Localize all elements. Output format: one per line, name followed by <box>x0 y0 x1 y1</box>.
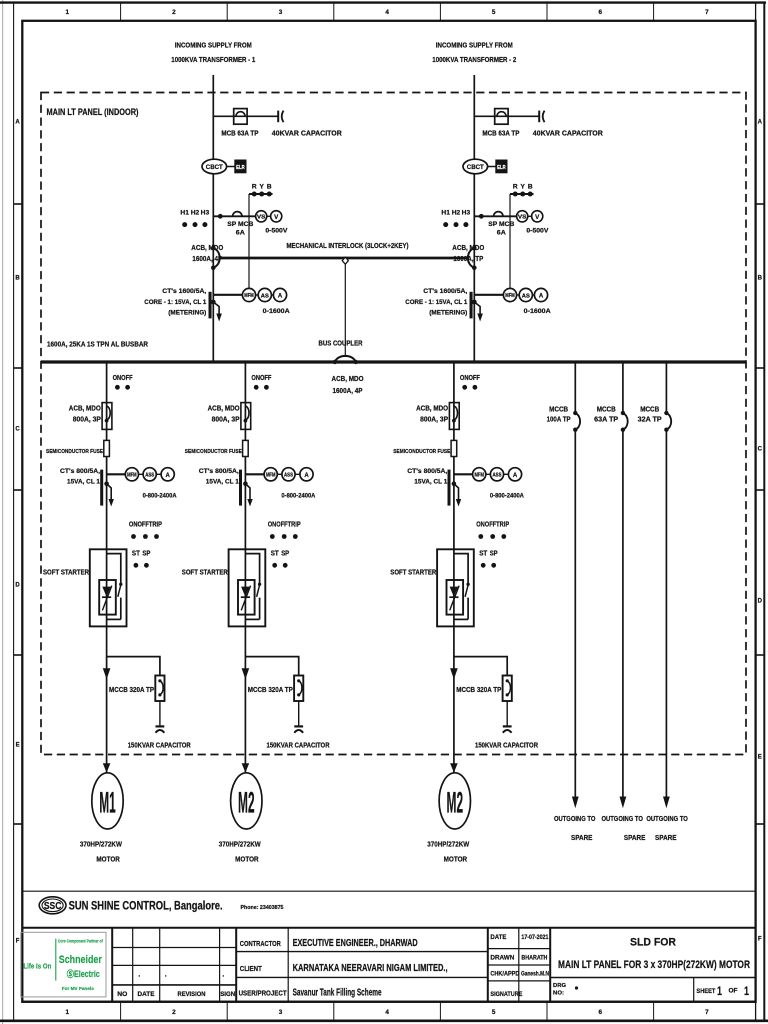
node Y dot (1) <box>259 192 264 197</box>
CT earth arrow feeder-1 <box>107 484 114 507</box>
svg-text:SEMICONDUCTOR FUSE: SEMICONDUCTOR FUSE <box>46 449 103 455</box>
svg-text:SP: SP <box>281 551 289 558</box>
motor M2 feeder-2 <box>231 773 262 829</box>
meter MFM feeder-2 <box>264 468 277 481</box>
wire MFM-AS (2) <box>517 294 520 296</box>
label ACB MDO 1600A (1) <box>191 245 223 263</box>
svg-text:KARNATAKA NEERAVARI NIGAM LIMI: KARNATAKA NEERAVARI NIGAM LIMITED., <box>293 963 448 974</box>
meter V voltmeter (1) <box>271 211 282 222</box>
lamp TRIP feeder-1 starter <box>154 534 159 539</box>
breaker ACB 800A feeder-1 (boxed) <box>102 403 112 430</box>
svg-text:M2: M2 <box>447 786 464 819</box>
svg-text:H1: H1 <box>441 209 450 216</box>
svg-text:1: 1 <box>66 9 70 16</box>
interlock key diamond <box>342 257 348 264</box>
top coordinate numbers 1-7 <box>66 9 710 16</box>
label SP MCB 6A (1) <box>227 221 253 237</box>
svg-text:MCCB 320A TP: MCCB 320A TP <box>248 687 293 694</box>
dashed enclosure MAIN LT PANEL <box>41 93 746 755</box>
svg-text:7: 7 <box>705 9 709 16</box>
wire CT secondary to MFM (1) <box>213 294 242 296</box>
svg-text:ACB, MDO: ACB, MDO <box>208 406 240 413</box>
svg-text:40KVAR CAPACITOR: 40KVAR CAPACITOR <box>533 131 603 138</box>
wire RYB tap (2) <box>510 193 534 195</box>
node CT dot (2) <box>472 300 477 305</box>
motor M1 feeder-1 <box>92 773 123 829</box>
svg-text:0-800-2400A: 0-800-2400A <box>281 493 315 500</box>
svg-text:SUN SHINE CONTROL, Bangalore.: SUN SHINE CONTROL, Bangalore. <box>69 900 223 913</box>
arrow outgoing spare-1 <box>572 797 579 809</box>
svg-text:CT's 1600/5A,: CT's 1600/5A, <box>162 288 206 295</box>
svg-text:A: A <box>539 294 544 300</box>
svg-text:OF: OF <box>729 988 738 995</box>
svg-text:C: C <box>758 446 763 452</box>
svg-text:1000KVA TRANSFORMER - 2: 1000KVA TRANSFORMER - 2 <box>432 55 516 64</box>
svg-text:R: R <box>252 184 257 191</box>
fuse semiconductor feeder-3 <box>451 440 457 456</box>
svg-text:.: . <box>222 972 224 979</box>
svg-text:ACB, MDO: ACB, MDO <box>191 245 223 252</box>
svg-text:ⓈElectric: ⓈElectric <box>67 968 100 979</box>
wire ASS-A feeder-3 <box>504 473 509 475</box>
label SHEET 1 OF 1 <box>696 986 749 998</box>
wire spare feeder-1 upper <box>574 362 576 413</box>
svg-text:INCOMING SUPPLY FROM: INCOMING SUPPLY FROM <box>175 41 252 50</box>
breaker MCCB 63A spare-2 <box>621 411 628 432</box>
svg-text:ST: ST <box>132 551 141 558</box>
arrow below branch feeder-3 <box>450 668 458 679</box>
svg-text:ST: ST <box>271 551 280 558</box>
indicator lamp H1 (1) <box>182 222 187 227</box>
svg-text:A: A <box>278 294 283 300</box>
svg-text:A: A <box>15 119 20 125</box>
wire CBCT-1 to ELR <box>227 166 235 168</box>
svg-text:MFM: MFM <box>127 473 137 479</box>
svg-text:ONOFF: ONOFF <box>113 375 134 382</box>
revision table headers NO DATE REVISION SIGN <box>117 991 235 998</box>
pushbutton SP feeder-2 <box>283 563 288 568</box>
svg-text:CT's 800/5A,: CT's 800/5A, <box>199 468 239 475</box>
motor M2 feeder-3 <box>439 773 470 829</box>
logo Schneider Electric box <box>21 932 106 997</box>
capacitor 40KVAR (2) <box>539 111 544 123</box>
svg-text:MCCB 320A TP: MCCB 320A TP <box>109 687 154 694</box>
svg-text:(METERING): (METERING) <box>429 310 467 317</box>
soft starter U2 bypass contactor <box>245 554 261 620</box>
svg-text:A: A <box>166 473 171 479</box>
svg-text:SOFT STARTER: SOFT STARTER <box>390 570 436 577</box>
wire branch to MCCB feeder-3 <box>454 657 507 676</box>
wire spare feeder-1 lower <box>574 430 576 797</box>
lamp ON feeder-3 <box>462 385 467 390</box>
svg-text:6A: 6A <box>236 230 245 237</box>
svg-text:MCCB: MCCB <box>640 407 659 414</box>
svg-text:4: 4 <box>385 9 389 16</box>
indicator lamp H3 (1) <box>202 222 207 227</box>
soft starter U3 thyristor box <box>447 580 464 615</box>
wire RYB tap (1) <box>249 193 273 195</box>
horizontal rule above SSC strip <box>22 890 755 892</box>
breaker ACB 800A feeder-3 (boxed) <box>449 403 459 430</box>
svg-text:DRAWN: DRAWN <box>490 954 514 961</box>
svg-text:M1: M1 <box>99 786 116 819</box>
bottom coordinate band ticks <box>121 1002 654 1021</box>
svg-text:B: B <box>528 184 533 191</box>
wire feeder-3 vertical main <box>453 362 455 773</box>
busbar 1600A TPN AL <box>41 360 746 363</box>
label CT's 1600/5A metering (2) <box>405 288 467 316</box>
svg-text:H2: H2 <box>452 209 461 216</box>
label MCCB 63A TP spare-2 <box>594 407 618 424</box>
wire VS to V (1) <box>267 215 271 217</box>
lamp ON feeder-2 starter <box>270 534 275 539</box>
svg-text:CBCT: CBCT <box>206 164 223 171</box>
svg-text:A: A <box>513 473 518 479</box>
svg-text:E: E <box>758 754 762 760</box>
svg-text:15VA, CL 1: 15VA, CL 1 <box>414 479 447 486</box>
wire MCCB to capacitor feeder-3 <box>506 701 508 725</box>
svg-text:D: D <box>15 582 20 588</box>
svg-text:C: C <box>15 426 20 432</box>
svg-text:H3: H3 <box>462 209 471 216</box>
svg-text:DATE: DATE <box>490 934 507 941</box>
meter MFM incoming (1) <box>242 288 255 301</box>
svg-text:A: A <box>304 473 309 479</box>
wire CBCT-2 to ELR <box>488 166 496 168</box>
pushbutton SP feeder-1 <box>144 563 149 568</box>
svg-text:Savanur Tank Filling Scheme: Savanur Tank Filling Scheme <box>293 988 382 999</box>
meter MFM feeder-1 <box>125 468 138 481</box>
svg-text:ACB, MDO: ACB, MDO <box>416 406 448 413</box>
indicator lamp H2 (2) <box>454 222 459 227</box>
svg-text:0-1600A: 0-1600A <box>263 308 290 315</box>
node Y dot (2) <box>520 192 525 197</box>
wire voltage sense drop (2) <box>509 194 511 288</box>
svg-text:SLD FOR: SLD FOR <box>630 937 676 949</box>
svg-text:100A TP: 100A TP <box>547 417 571 424</box>
arrow outgoing spare-2 <box>620 797 627 809</box>
thyristor symbol feeder-3 <box>449 586 459 611</box>
svg-text:H1: H1 <box>180 209 189 216</box>
lamp ON feeder-2 <box>254 385 259 390</box>
relay ELR-2 <box>496 160 507 173</box>
svg-text:17-07-2021: 17-07-2021 <box>521 934 548 941</box>
breaker MCCB 100A spare-1 <box>573 411 580 432</box>
pushbutton ST feeder-3 <box>481 563 486 568</box>
svg-text:CT's 800/5A,: CT's 800/5A, <box>407 468 447 475</box>
capacitor 150KVAR feeder-1 <box>156 726 165 732</box>
svg-text:CBCT: CBCT <box>467 164 484 171</box>
svg-text:OUTGOING TO: OUTGOING TO <box>601 816 643 823</box>
svg-text:ELR: ELR <box>497 165 506 171</box>
wire branch to capacitor MCB-1 <box>213 115 278 117</box>
left row letters A-F <box>15 119 20 944</box>
node B dot (1) <box>267 192 272 197</box>
svg-text:63A TP: 63A TP <box>594 417 618 424</box>
svg-text:M2: M2 <box>238 786 255 819</box>
svg-text:Life Is On: Life Is On <box>23 961 51 970</box>
CT earth arrow feeder-3 <box>454 484 461 507</box>
svg-text:ONOFFTRIP: ONOFFTRIP <box>476 522 509 529</box>
meter AS ammeter-selector (2) <box>519 288 532 301</box>
wire metering tap (2) <box>474 215 517 217</box>
breaker ACB 800A feeder-2 (boxed) <box>241 403 251 430</box>
svg-text:1: 1 <box>744 986 749 998</box>
meter A ammeter (1) <box>273 288 286 301</box>
indicator lamp H3 (2) <box>463 222 468 227</box>
svg-text:D: D <box>758 598 763 604</box>
svg-text:SSC: SSC <box>44 900 62 912</box>
svg-text:SEMICONDUCTOR FUSE: SEMICONDUCTOR FUSE <box>185 449 242 455</box>
svg-text:ASS: ASS <box>145 473 154 479</box>
meter ASS feeder-3 <box>490 468 503 481</box>
svg-text:VS: VS <box>257 215 266 221</box>
svg-text:MECHANICAL INTERLOCK (3LOCK+2K: MECHANICAL INTERLOCK (3LOCK+2KEY) <box>287 241 409 250</box>
label H1 H2 H3 (2) <box>441 209 470 216</box>
soft starter U2 thyristor box <box>238 580 255 615</box>
wire CT secondary feeder-1 <box>107 473 126 475</box>
svg-text:370HP/272KW: 370HP/272KW <box>427 840 470 849</box>
contractor client project rows <box>236 928 488 1002</box>
label ST SP feeder-1 <box>132 551 151 558</box>
label SP MCB 6A (2) <box>488 221 514 237</box>
svg-text:MFM: MFM <box>505 293 515 299</box>
thyristor symbol feeder-2 <box>241 586 251 611</box>
thyristor symbol feeder-1 <box>102 586 112 611</box>
breaker ACB-2 (arc) <box>468 246 477 270</box>
svg-text:150KVAR CAPACITOR: 150KVAR CAPACITOR <box>267 742 330 749</box>
svg-text:CORE - 1: 15VA, CL 1: CORE - 1: 15VA, CL 1 <box>405 299 467 306</box>
label DRG NO <box>553 983 566 997</box>
meter MFM incoming (2) <box>503 288 516 301</box>
label phases R Y B (2) <box>513 184 533 191</box>
svg-text:MOTOR: MOTOR <box>96 855 120 864</box>
svg-text:370HP/272KW: 370HP/272KW <box>80 840 123 849</box>
wire branch to MCCB feeder-1 <box>107 657 160 676</box>
wire ASS-A feeder-2 <box>295 473 300 475</box>
CT earth arrow (1) <box>213 302 222 322</box>
svg-text:SP MCB: SP MCB <box>488 221 514 228</box>
label CT's 800/5A feeder-1 <box>60 468 100 486</box>
node CT dot feeder-2 <box>243 481 248 486</box>
svg-text:Core Component Partner of: Core Component Partner of <box>58 939 103 944</box>
svg-text:CT's 800/5A,: CT's 800/5A, <box>60 468 100 475</box>
svg-text:1000KVA TRANSFORMER - 1: 1000KVA TRANSFORMER - 1 <box>171 55 255 64</box>
label MCCB 32A TP spare-3 <box>638 407 662 424</box>
CBCT-1 core balance CT <box>202 159 227 174</box>
svg-text:SEMICONDUCTOR FUSE: SEMICONDUCTOR FUSE <box>393 449 450 455</box>
wire ASS-A feeder-1 <box>156 473 161 475</box>
svg-text:SOFT STARTER: SOFT STARTER <box>43 570 89 577</box>
soft starter U3 bypass contactor <box>454 554 470 620</box>
meter V voltmeter (2) <box>532 211 543 222</box>
wire incoming-1 vertical main <box>212 75 214 362</box>
svg-text:0-800-2400A: 0-800-2400A <box>490 493 524 500</box>
arrow to motor feeder-3 <box>450 763 458 772</box>
svg-text:VS: VS <box>518 215 527 221</box>
lamp OFF feeder-2 starter <box>282 534 287 539</box>
svg-text:ASS: ASS <box>493 473 502 479</box>
wire VS to V (2) <box>528 215 532 217</box>
svg-text:800A, 3P: 800A, 3P <box>73 416 101 423</box>
node R dot (1) <box>252 192 257 197</box>
label ST SP feeder-2 <box>271 551 290 558</box>
svg-text:1: 1 <box>66 1009 70 1016</box>
meter ASS feeder-2 <box>282 468 295 481</box>
svg-text:Phone: 23403875: Phone: 23403875 <box>241 905 285 911</box>
wire MCCB to capacitor feeder-2 <box>298 701 300 725</box>
node CT dot feeder-3 <box>452 481 457 486</box>
lamp TRIP feeder-3 starter <box>501 534 506 539</box>
soft starter U2 outer box <box>229 549 266 626</box>
svg-text:DATE: DATE <box>138 991 156 998</box>
svg-text:2: 2 <box>172 9 176 16</box>
node CT dot feeder-1 <box>104 481 109 486</box>
svg-text:SP: SP <box>490 551 498 558</box>
svg-text:ONOFFTRIP: ONOFFTRIP <box>268 522 301 529</box>
junction dot metering tap (2) <box>479 214 484 219</box>
label CT's 1600/5A metering (1) <box>144 288 206 316</box>
revision table dots <box>138 972 224 979</box>
svg-text:6: 6 <box>599 9 603 16</box>
svg-text:.: . <box>138 972 140 979</box>
wire MFM-ASS feeder-2 <box>277 473 282 475</box>
soft starter U1 outer box <box>90 549 127 626</box>
svg-text:(METERING): (METERING) <box>168 310 206 317</box>
breaker bus coupler ACB (arc on busbar) <box>333 356 358 364</box>
meter ASS feeder-1 <box>143 468 156 481</box>
label MCCB 100A TP spare-1 <box>547 407 571 424</box>
wire AS-A (2) <box>532 294 534 296</box>
svg-text:MFM: MFM <box>474 473 484 479</box>
breaker MCCB 320A TP feeder-1 <box>155 676 164 702</box>
CT core bar feeder-1 <box>100 470 103 506</box>
svg-text:CT's 1600/5A,: CT's 1600/5A, <box>423 288 467 295</box>
svg-text:SIGN: SIGN <box>220 991 235 998</box>
bottom coordinate numbers 1-7 <box>66 1009 710 1016</box>
svg-text:3: 3 <box>279 9 283 16</box>
title block outline <box>22 928 755 1002</box>
svg-text:B: B <box>15 275 20 281</box>
meter A feeder-2 <box>300 468 313 481</box>
label CT's 800/5A feeder-3 <box>407 468 447 486</box>
svg-text:SOFT STARTER: SOFT STARTER <box>182 570 228 577</box>
breaker MCB 2 63A TP <box>495 109 508 125</box>
svg-text:MAIN LT PANEL (INDOOR): MAIN LT PANEL (INDOOR) <box>47 107 139 118</box>
lamp OFF feeder-3 starter <box>490 534 495 539</box>
wire branch to capacitor MCB-2 <box>474 115 539 117</box>
lamp TRIP feeder-2 starter <box>293 534 298 539</box>
label ACB MDO 800A 3P feeder-1 <box>69 406 101 424</box>
CT earth arrow (2) <box>474 302 483 322</box>
label ST SP feeder-3 <box>479 551 498 558</box>
svg-text:0-800-2400A: 0-800-2400A <box>143 493 177 500</box>
svg-text:SPARE: SPARE <box>655 835 677 842</box>
svg-text:H2: H2 <box>191 209 200 216</box>
wire MFM-ASS feeder-1 <box>139 473 144 475</box>
label incoming supply from transformer 2 <box>432 41 516 65</box>
svg-text:5: 5 <box>492 9 496 16</box>
wire AS-A (1) <box>271 294 273 296</box>
node CT dot (1) <box>211 300 216 305</box>
meter MFM feeder-3 <box>473 468 486 481</box>
breaker SP MCB 6A (1) <box>233 212 242 217</box>
svg-text:SP MCB: SP MCB <box>227 221 253 228</box>
svg-text:F: F <box>758 936 762 942</box>
svg-text:150KVAR CAPACITOR: 150KVAR CAPACITOR <box>475 742 538 749</box>
svg-text:5: 5 <box>492 1009 496 1016</box>
wire interlock to bus coupler <box>344 264 346 357</box>
svg-text:0-1600A: 0-1600A <box>524 308 551 315</box>
svg-text:4: 4 <box>385 1009 389 1016</box>
svg-text:E: E <box>16 742 20 748</box>
svg-text:MAIN LT PANEL FOR 3 x 370HP(27: MAIN LT PANEL FOR 3 x 370HP(272KW) MOTOR <box>558 959 750 971</box>
meter AS ammeter-selector (1) <box>258 288 271 301</box>
svg-text:1: 1 <box>717 986 722 998</box>
svg-text:MCCB: MCCB <box>597 407 616 414</box>
svg-text:150KVAR CAPACITOR: 150KVAR CAPACITOR <box>128 742 191 749</box>
right row letters A-F <box>758 119 763 942</box>
indicator lamp H2 (1) <box>193 222 198 227</box>
svg-text:B: B <box>758 275 763 281</box>
svg-text:MOTOR: MOTOR <box>235 855 259 864</box>
wire spare feeder-2 upper <box>622 362 624 413</box>
svg-text:15VA, CL 1: 15VA, CL 1 <box>67 479 100 486</box>
wire spare feeder-3 upper <box>665 362 667 413</box>
svg-text:ONOFFTRIP: ONOFFTRIP <box>129 522 162 529</box>
breaker SP MCB 6A (2) <box>494 212 503 217</box>
arrow to motor feeder-2 <box>242 763 250 772</box>
drg no / sheet row <box>550 978 755 1002</box>
svg-text:R: R <box>513 184 518 191</box>
wire mechanical interlock bar <box>220 257 469 260</box>
fuse semiconductor feeder-1 <box>104 440 110 456</box>
svg-text:ACB, MDO: ACB, MDO <box>332 376 364 383</box>
label CT's 800/5A feeder-2 <box>199 468 239 486</box>
breaker MCB 1 63A TP <box>234 109 247 125</box>
capacitor 150KVAR feeder-2 <box>294 726 303 732</box>
svg-text:BUS COUPLER: BUS COUPLER <box>319 341 363 348</box>
svg-text:MCB 63A TP: MCB 63A TP <box>482 131 519 138</box>
svg-text:32A TP: 32A TP <box>638 417 662 424</box>
svg-text:OUTGOING TO: OUTGOING TO <box>554 816 596 823</box>
label phases R Y B (1) <box>252 184 272 191</box>
svg-text:Schneider: Schneider <box>59 954 103 966</box>
node B dot (2) <box>528 192 533 197</box>
CT core bar feeder-2 <box>239 470 242 506</box>
capacitor 40KVAR (1) <box>278 111 283 123</box>
svg-text:800A, 3P: 800A, 3P <box>420 416 448 423</box>
wire feeder-2 vertical main <box>244 362 246 773</box>
junction dot metering tap (1) <box>218 214 223 219</box>
wire spare feeder-3 lower <box>665 430 667 797</box>
svg-text:AS: AS <box>261 293 270 299</box>
CT earth arrow feeder-2 <box>245 484 252 507</box>
lamp OFF feeder-2 <box>264 385 269 390</box>
label ACB MDO 800A 3P feeder-3 <box>416 406 448 424</box>
node R dot (2) <box>513 192 518 197</box>
svg-text:ONOFF: ONOFF <box>251 375 272 382</box>
wire MCCB to capacitor feeder-1 <box>159 701 161 725</box>
arrow below branch feeder-1 <box>103 668 111 679</box>
left row band ticks <box>14 204 23 824</box>
svg-text:3: 3 <box>279 1009 283 1016</box>
svg-text:B: B <box>267 184 272 191</box>
lamp OFF feeder-1 <box>125 385 130 390</box>
date drawn checked rows <box>488 928 550 1002</box>
svg-text:A: A <box>758 119 763 125</box>
breaker ACB-1 (arc) <box>211 246 220 270</box>
